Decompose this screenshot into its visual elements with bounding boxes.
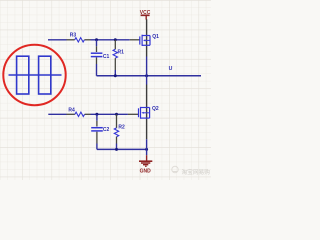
wire: R4 to Q2 gate (91, 113, 128, 115)
ground GND (146, 149, 148, 155)
waveform pulse 1 (17, 56, 29, 94)
transistor Q1 drain/source pin (through line) (146, 19, 148, 56)
resistor R3 pins (67, 39, 75, 41)
capacitor C1 pin top (96, 46, 98, 52)
resistor R2 pin top (116, 114, 118, 128)
transistor Q2 gate pin (128, 113, 139, 115)
capacitor C1 pin bottom (96, 57, 98, 64)
resistor R1 pin top (114, 40, 116, 50)
resistor R4 (75, 112, 85, 116)
svg-text:C1: C1 (103, 54, 110, 60)
annotation ellipse (red) (3, 45, 65, 105)
svg-text:GND: GND (140, 169, 152, 175)
junction node GND (145, 148, 148, 151)
resistor R1 (113, 49, 117, 58)
wire: R2 to bottom rail (116, 144, 118, 150)
wire: lower input to R4 (48, 113, 66, 115)
capacitor C2 (91, 127, 103, 129)
junction node C2 top (95, 113, 98, 116)
svg-text:淘宝网易购: 淘宝网易购 (182, 168, 211, 176)
resistor R4 pins (67, 113, 75, 115)
transistor Q1 (140, 35, 150, 46)
waveform center line (9, 74, 62, 76)
svg-text:R1: R1 (118, 50, 125, 56)
svg-text:U: U (169, 66, 173, 72)
resistor R2 (114, 128, 118, 137)
junction node Q1 source (145, 74, 148, 77)
resistor R2 pin bottom (116, 137, 118, 144)
wire: input to R3 (48, 39, 67, 41)
wire: bottom rail (97, 148, 147, 150)
transistor Q2 drain/source pin (through line) (146, 85, 148, 140)
capacitor C1 (91, 52, 103, 54)
wire: C2 branch top (96, 114, 98, 121)
wire: C2 branch bottom (96, 144, 98, 150)
svg-text:R2: R2 (118, 125, 125, 131)
svg-text:Q2: Q2 (152, 106, 159, 112)
wire: Q2 source to bottom rail (146, 139, 148, 149)
wire: R3 to Q1 gate (91, 39, 130, 41)
svg-text:R4: R4 (68, 108, 75, 114)
transistor Q1 gate pin (130, 39, 140, 41)
svg-text:Q1: Q1 (152, 34, 159, 40)
svg-text:C2: C2 (103, 127, 110, 133)
waveform pulse 2 (39, 56, 51, 94)
wire: node U rail (97, 75, 202, 77)
capacitor C2 pin top (96, 121, 98, 127)
junction node R2 top (115, 113, 118, 116)
resistor R3 (75, 38, 85, 42)
junction node R1 top (114, 38, 117, 41)
wire: C1 branch bottom (96, 64, 98, 76)
wire: R1 to U rail (114, 70, 116, 76)
junction node R2 bottom (115, 148, 118, 151)
svg-text:R3: R3 (70, 33, 77, 39)
resistor R1 pin bottom (114, 58, 116, 70)
junction node R1 bottom (114, 74, 117, 77)
wire: C1 branch top (96, 40, 98, 46)
capacitor C2 pin bottom (96, 132, 98, 144)
wire: Q1 source to U rail (146, 57, 148, 76)
watermark (172, 166, 210, 176)
transistor Q2 (139, 107, 150, 119)
wire: U rail to Q2 drain (146, 76, 148, 85)
junction node C1 top (95, 38, 98, 41)
